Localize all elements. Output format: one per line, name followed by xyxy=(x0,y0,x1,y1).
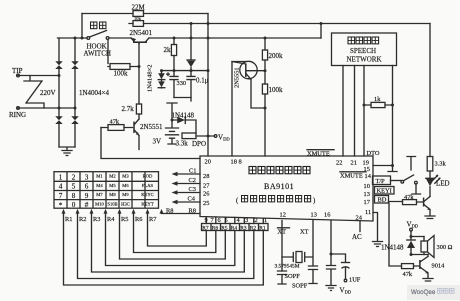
svg-text:22: 22 xyxy=(336,160,342,167)
svg-text:M10: M10 xyxy=(95,202,104,207)
svg-text:1: 1 xyxy=(59,173,63,181)
svg-text:3V: 3V xyxy=(153,138,162,146)
svg-text:DTO: DTO xyxy=(367,150,380,157)
svg-text:C4: C4 xyxy=(188,196,196,203)
svg-text:0.1μ: 0.1μ xyxy=(196,77,209,85)
svg-text:R3: R3 xyxy=(240,225,247,231)
svg-text:#: # xyxy=(85,201,89,209)
svg-text:SOPF: SOPF xyxy=(292,283,308,290)
svg-text:AWITCH: AWITCH xyxy=(84,50,111,58)
svg-text:100k: 100k xyxy=(114,70,129,78)
svg-text:1: 1 xyxy=(264,217,267,224)
svg-text:R7: R7 xyxy=(149,216,157,223)
svg-text:KEYT: KEYT xyxy=(141,202,153,207)
svg-text:): ) xyxy=(313,197,316,205)
svg-text:H3C: H3C xyxy=(121,202,130,207)
svg-text:VDD: VDD xyxy=(218,134,230,142)
svg-text:10k: 10k xyxy=(134,16,142,21)
svg-text:1N4004×4: 1N4004×4 xyxy=(79,89,110,97)
svg-text:27: 27 xyxy=(203,183,210,190)
svg-text:13: 13 xyxy=(364,191,370,198)
svg-text:M2: M2 xyxy=(109,174,116,179)
svg-text:47k: 47k xyxy=(110,119,120,126)
svg-text:R5: R5 xyxy=(121,216,128,223)
svg-text:12: 12 xyxy=(280,212,286,219)
svg-text:47k: 47k xyxy=(404,194,414,201)
svg-text:5: 5 xyxy=(225,217,228,224)
svg-text:47k: 47k xyxy=(403,271,413,278)
svg-text:14: 14 xyxy=(365,173,372,180)
svg-text:28: 28 xyxy=(203,173,209,180)
svg-text:R2: R2 xyxy=(250,225,257,231)
svg-text:3.3k: 3.3k xyxy=(435,161,447,168)
svg-text:8: 8 xyxy=(72,192,76,200)
svg-text:10: 10 xyxy=(364,183,370,190)
svg-text:(: ( xyxy=(236,197,239,205)
svg-text:C1: C1 xyxy=(189,168,196,175)
svg-text:22M: 22M xyxy=(132,4,146,12)
svg-text:6: 6 xyxy=(85,183,89,191)
svg-text:AC: AC xyxy=(352,233,362,241)
svg-text:2N5551: 2N5551 xyxy=(234,67,241,88)
svg-text:18 8: 18 8 xyxy=(231,159,242,166)
svg-text:16: 16 xyxy=(324,212,330,219)
svg-text:1N4148×2: 1N4148×2 xyxy=(147,65,154,92)
svg-text:M4: M4 xyxy=(96,183,103,188)
svg-text:R6: R6 xyxy=(135,216,142,223)
svg-text:5: 5 xyxy=(72,183,76,191)
svg-text:7: 7 xyxy=(59,192,63,200)
svg-text:WooQee: WooQee xyxy=(411,289,436,296)
svg-text:R7: R7 xyxy=(202,225,209,231)
svg-text:2k: 2k xyxy=(164,46,172,54)
svg-text:R4: R4 xyxy=(231,225,238,231)
svg-text:2N5401: 2N5401 xyxy=(130,29,153,37)
svg-text:ROD: ROD xyxy=(143,174,153,179)
svg-text:17: 17 xyxy=(364,199,371,206)
svg-text:R1: R1 xyxy=(259,225,266,231)
svg-text:XMUTE: XMUTE xyxy=(307,151,330,158)
svg-text:R4: R4 xyxy=(107,216,115,223)
svg-text:21: 21 xyxy=(351,160,357,167)
svg-text:M8: M8 xyxy=(109,192,116,197)
svg-text:3.579545M: 3.579545M xyxy=(275,264,300,270)
svg-text:R3: R3 xyxy=(93,216,100,223)
svg-text:1N4148: 1N4148 xyxy=(381,244,404,252)
svg-text:R6: R6 xyxy=(212,225,219,231)
svg-text:330: 330 xyxy=(177,80,187,87)
svg-text:M9: M9 xyxy=(122,192,129,197)
svg-text:XT: XT xyxy=(278,229,287,236)
svg-text:2N5551: 2N5551 xyxy=(140,123,163,131)
svg-text:1k: 1k xyxy=(374,96,381,103)
svg-text:4: 4 xyxy=(59,183,63,191)
svg-text:T/P: T/P xyxy=(376,178,386,185)
svg-text:R8: R8 xyxy=(166,207,173,214)
svg-text:S10B: S10B xyxy=(107,202,117,207)
svg-text:1N4148: 1N4148 xyxy=(172,112,195,120)
svg-text:M7: M7 xyxy=(96,192,103,197)
svg-text:9014: 9014 xyxy=(432,263,446,270)
svg-text:24: 24 xyxy=(356,214,363,221)
svg-text:TIP: TIP xyxy=(12,67,23,75)
svg-text:9: 9 xyxy=(205,217,208,224)
svg-text:BD: BD xyxy=(378,197,387,204)
svg-text:FLAS: FLAS xyxy=(142,183,154,188)
svg-text:2.7k: 2.7k xyxy=(122,105,135,113)
svg-text:M5: M5 xyxy=(109,183,116,188)
svg-text:NETWORK: NETWORK xyxy=(347,56,382,64)
svg-text:SOPF: SOPF xyxy=(285,273,301,280)
svg-text:C2: C2 xyxy=(189,177,196,184)
svg-text:R1: R1 xyxy=(65,216,72,223)
svg-text:KEYI: KEYI xyxy=(377,188,392,195)
svg-text:220V: 220V xyxy=(40,89,56,97)
svg-text:M1: M1 xyxy=(96,174,103,179)
svg-text:BA9101: BA9101 xyxy=(264,182,294,191)
svg-text:1UF: 1UF xyxy=(349,277,361,284)
svg-text:3: 3 xyxy=(85,173,89,181)
svg-text:KEYC: KEYC xyxy=(141,192,154,197)
svg-text:6: 6 xyxy=(218,217,221,224)
svg-text:R2: R2 xyxy=(79,216,86,223)
svg-text:11: 11 xyxy=(365,209,371,216)
svg-text:VDD: VDD xyxy=(407,221,419,229)
svg-text:3.3k: 3.3k xyxy=(176,140,189,148)
svg-text:3: 3 xyxy=(245,217,248,224)
svg-text:25: 25 xyxy=(203,200,209,207)
svg-text:200k: 200k xyxy=(269,52,284,60)
svg-text:2: 2 xyxy=(255,217,258,224)
svg-text:XT: XT xyxy=(300,229,309,236)
svg-text:0: 0 xyxy=(72,201,76,209)
svg-text:7: 7 xyxy=(211,217,215,224)
svg-text:VDD: VDD xyxy=(340,287,352,295)
svg-text:SPEECH: SPEECH xyxy=(350,47,376,55)
svg-text:26: 26 xyxy=(203,191,209,198)
svg-text:9: 9 xyxy=(85,192,89,200)
svg-text:2: 2 xyxy=(72,173,76,181)
svg-text:M6: M6 xyxy=(122,183,129,188)
svg-text:20: 20 xyxy=(205,159,211,166)
svg-text:LED: LED xyxy=(436,180,450,188)
svg-text:XMUTE: XMUTE xyxy=(340,173,363,180)
svg-text:100k: 100k xyxy=(269,86,284,94)
svg-text:300 Ω: 300 Ω xyxy=(437,244,453,251)
svg-text:RING: RING xyxy=(9,111,26,119)
svg-text:R8: R8 xyxy=(189,207,196,214)
svg-text:R5: R5 xyxy=(221,225,228,231)
svg-text:C3: C3 xyxy=(189,186,196,193)
svg-text:*: * xyxy=(59,202,63,210)
svg-text:13: 13 xyxy=(311,212,317,219)
svg-text:DPO: DPO xyxy=(192,140,206,148)
svg-text:M3: M3 xyxy=(122,174,129,179)
